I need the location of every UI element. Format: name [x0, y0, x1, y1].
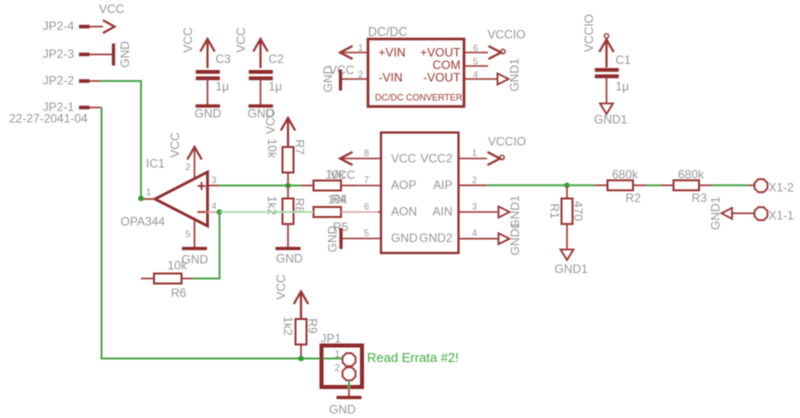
supply VCC at IC1 [168, 132, 202, 159]
svg-text:1: 1 [334, 350, 340, 361]
svg-text:X1-1: X1-1 [769, 209, 795, 223]
pin 1 of DC/DC [341, 43, 368, 53]
svg-text:2: 2 [358, 70, 363, 80]
svg-text:-VIN: -VIN [379, 71, 403, 85]
svg-text:VCC: VCC [391, 152, 417, 166]
isolation amplifier U2 box [381, 133, 459, 254]
capacitor C2 [249, 52, 284, 106]
wire AIP to R1/R2 node [487, 184, 568, 186]
resistor R9 [281, 316, 320, 358]
svg-text:GND1: GND1 [555, 262, 589, 276]
ground GND at IC1 [182, 249, 209, 267]
capacitor C3 [196, 52, 231, 106]
supply VCC at C2 [234, 27, 268, 68]
svg-text:AIP: AIP [433, 178, 452, 192]
supply VCC at DC/DC pin 1 [329, 46, 355, 77]
pin 2 lead of IC1 [185, 147, 194, 180]
svg-text:VCC: VCC [264, 109, 278, 135]
wire JP1 pin 2 to ground [348, 380, 350, 389]
svg-text:R6: R6 [171, 286, 187, 300]
svg-text:4: 4 [473, 70, 478, 80]
svg-text:1: 1 [358, 43, 363, 53]
svg-text:IC1: IC1 [146, 157, 165, 171]
svg-text:2: 2 [472, 175, 477, 185]
svg-text:680k: 680k [678, 168, 705, 182]
svg-text:GND1: GND1 [508, 222, 522, 256]
svg-text:GND: GND [329, 403, 356, 417]
wire +IN to divider node [220, 185, 301, 187]
resistor R3 [661, 168, 713, 206]
svg-text:JP2-3: JP2-3 [43, 47, 75, 61]
ground GND1 at X1-1 [709, 196, 748, 230]
svg-text:10k: 10k [328, 193, 348, 207]
ground GND at C2 [248, 106, 275, 121]
svg-text:X1-2: X1-2 [769, 181, 795, 195]
svg-text:8: 8 [364, 148, 369, 158]
svg-text:VCC: VCC [234, 27, 248, 53]
svg-text:5: 5 [185, 229, 190, 239]
svg-text:JP2-2: JP2-2 [43, 74, 75, 88]
ground GND at DC/DC pin 2 [321, 65, 341, 92]
svg-text:+VIN: +VIN [379, 46, 406, 60]
pin 4 lead of IC1 [208, 201, 220, 212]
ground GND1 at U2 pin 4 [499, 222, 523, 256]
svg-text:C1: C1 [616, 53, 632, 67]
svg-text:GND: GND [118, 41, 132, 68]
pale wire AON from inverting node to R5 [220, 211, 314, 213]
svg-text:VCCIO: VCCIO [488, 135, 526, 149]
svg-text:1μ: 1μ [616, 80, 630, 94]
wire JP2-1 down to JP1 pin 1 [102, 108, 343, 359]
DC/DC converter U3 box [368, 25, 464, 107]
connector pin JP2-3 [43, 47, 113, 61]
supply VCC at C3 [181, 27, 215, 68]
svg-text:5: 5 [364, 228, 369, 238]
supply VCCIO at U2 pin 1 [488, 135, 527, 166]
terminal X1-2 [748, 179, 794, 194]
svg-text:VCC: VCC [99, 2, 125, 16]
svg-text:6: 6 [364, 202, 369, 212]
wire node to R2 [567, 184, 595, 186]
svg-text:GND: GND [391, 231, 418, 245]
svg-text:1k2: 1k2 [281, 316, 295, 336]
supply VCC at U2 pin 8 [330, 152, 356, 182]
svg-text:2: 2 [334, 363, 340, 374]
ground GND1 at DC/DC pin 4 [498, 58, 522, 92]
svg-text:GND2: GND2 [419, 231, 453, 245]
svg-text:R3: R3 [692, 191, 708, 205]
connector pin JP2-4 [43, 19, 103, 33]
supply VCC at JP2-4 [99, 2, 125, 33]
svg-text:Read Errata #2!: Read Errata #2! [367, 350, 459, 365]
svg-text:GND: GND [195, 107, 222, 121]
ground GND at JP1 [329, 398, 362, 417]
svg-text:10k: 10k [265, 139, 279, 159]
pin 6 of U2 [355, 202, 382, 213]
svg-text:OPA344: OPA344 [121, 215, 166, 229]
svg-text:JP2-4: JP2-4 [43, 19, 75, 33]
pin 3 of U2 [459, 202, 499, 213]
pin 1 lead of IC1 [141, 187, 156, 199]
junction node at inverting input [217, 209, 223, 215]
pin 4 of U2 [459, 228, 499, 239]
svg-text:VCC: VCC [181, 27, 195, 53]
svg-text:1μ: 1μ [269, 80, 283, 94]
svg-text:AON: AON [391, 205, 417, 219]
svg-text:DC/DC: DC/DC [368, 25, 408, 39]
resistor R6 [141, 259, 193, 301]
wire R3 to X1-2 [712, 184, 748, 186]
ground GND at JP2-3 [114, 41, 133, 68]
junction node at op-amp output [138, 196, 144, 202]
svg-text:-VOUT: -VOUT [423, 71, 461, 85]
svg-text:R9: R9 [306, 318, 320, 334]
pin 3 lead of IC1 [208, 175, 220, 186]
wire feedback node down to R6 [193, 212, 220, 279]
svg-text:6: 6 [473, 43, 478, 53]
svg-text:3: 3 [212, 175, 217, 185]
supply VCC at R9 [274, 274, 308, 319]
svg-text:VCC: VCC [274, 274, 288, 300]
svg-text:470: 470 [571, 201, 585, 221]
svg-text:C2: C2 [269, 52, 285, 66]
svg-text:AOP: AOP [391, 178, 416, 192]
svg-text:3: 3 [472, 202, 477, 212]
connector pin JP2-1 [43, 100, 102, 114]
pin 6 of DC/DC [464, 43, 488, 53]
svg-text:AIN: AIN [432, 205, 452, 219]
junction node at divider [285, 183, 291, 189]
svg-text:VCC: VCC [168, 132, 182, 158]
junction node at R1/R2 [564, 183, 570, 189]
svg-text:7: 7 [364, 175, 369, 185]
svg-text:1: 1 [146, 187, 151, 197]
svg-text:4: 4 [472, 228, 477, 238]
capacitor C1 [595, 53, 631, 104]
pin 1 of U2 [459, 148, 488, 159]
svg-text:GND1: GND1 [508, 58, 522, 92]
terminal X1-1 [747, 207, 794, 222]
resistor R7 [265, 139, 307, 186]
ground GND at U2 pin 5 [326, 225, 342, 252]
svg-text:GND1: GND1 [594, 113, 628, 127]
svg-text:JP1: JP1 [321, 332, 342, 346]
svg-text:GND: GND [321, 65, 335, 92]
svg-text:VCC2: VCC2 [420, 152, 452, 166]
resistor R4 [301, 168, 355, 207]
ground GND1 at U2 pin 3 [499, 195, 523, 229]
svg-text:2: 2 [185, 162, 190, 172]
svg-text:GND: GND [276, 252, 303, 266]
svg-text:680k: 680k [612, 168, 639, 182]
pin 5 of DC/DC [464, 57, 488, 67]
jumper JP1 [321, 332, 363, 388]
ground GND1 at C1 [594, 104, 628, 127]
resistor R8 [265, 186, 307, 249]
wire JP2-2 to op-amp output node [101, 81, 142, 199]
svg-text:1μ: 1μ [216, 80, 230, 94]
supply VCCIO at C1 [582, 14, 614, 68]
svg-text:22-27-2041-04: 22-27-2041-04 [9, 112, 88, 126]
svg-text:GND: GND [326, 225, 340, 252]
resistor R2 [595, 168, 647, 206]
connector pin JP2-2 [43, 74, 101, 88]
resistor R5 [314, 193, 355, 235]
ground GND at R8 [276, 249, 304, 266]
pin 5 lead of IC1 [185, 218, 194, 249]
supply VCC at R7 [264, 109, 296, 147]
pin 4 of DC/DC [464, 70, 498, 80]
wire R2 to R3 [646, 184, 661, 186]
svg-text:10k: 10k [168, 259, 188, 273]
svg-text:4: 4 [212, 201, 217, 211]
pin 8 of U2 [341, 148, 381, 159]
supply VCCIO at DC/DC pin 6 [488, 28, 526, 60]
svg-text:VCC: VCC [330, 168, 356, 182]
svg-text:DC/DC CONVERTER: DC/DC CONVERTER [375, 93, 463, 103]
pin 7 of U2 [355, 175, 382, 186]
op-amp IC1 [121, 157, 208, 229]
pin 2 of DC/DC [341, 70, 369, 80]
ground GND at C3 [195, 106, 222, 121]
svg-text:C3: C3 [216, 52, 232, 66]
junction node at R9/JP1 wire [298, 356, 304, 362]
svg-text:VCCIO: VCCIO [488, 28, 526, 42]
svg-text:5: 5 [473, 57, 478, 67]
svg-text:1: 1 [472, 148, 477, 158]
pin 2 of U2 [459, 175, 487, 185]
svg-text:R2: R2 [626, 191, 642, 205]
svg-text:VCCIO: VCCIO [582, 14, 596, 52]
svg-text:GND1: GND1 [709, 196, 723, 230]
pin 5 of U2 [341, 228, 381, 239]
ground GND1 at R1 [555, 250, 589, 277]
svg-text:R7: R7 [293, 139, 307, 155]
svg-text:R1: R1 [548, 203, 562, 219]
resistor R1 [548, 185, 586, 249]
